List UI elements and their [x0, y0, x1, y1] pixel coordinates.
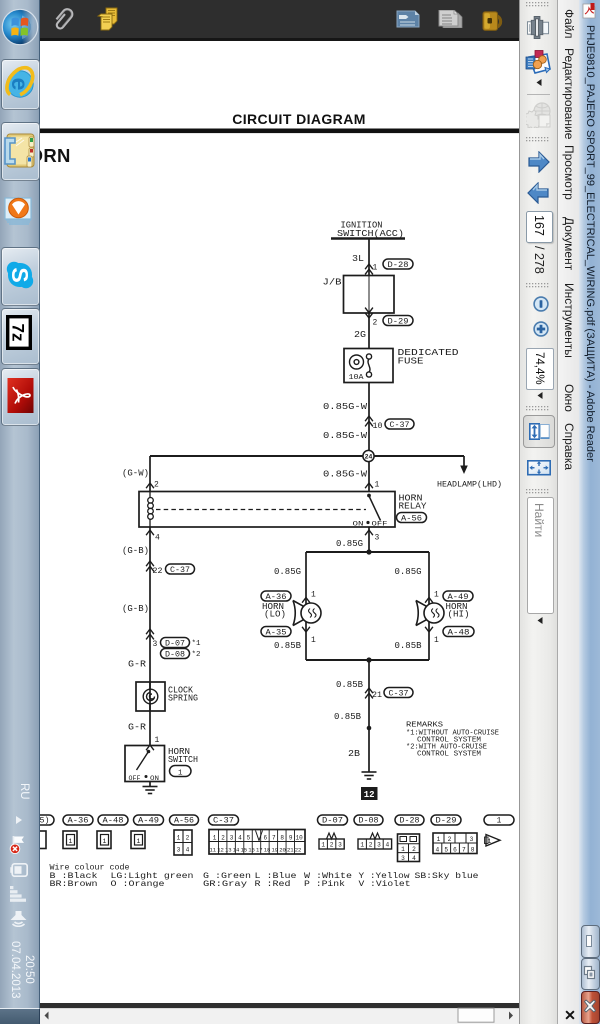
svg-text:0.85B: 0.85B — [274, 640, 301, 651]
svg-text:D-28: D-28 — [400, 818, 420, 826]
svg-text:0.85G-W: 0.85G-W — [323, 430, 367, 441]
svg-text:A-48: A-48 — [448, 628, 470, 637]
svg-text:G-R: G-R — [128, 659, 146, 670]
svg-text:1: 1 — [360, 842, 364, 849]
svg-text:35): 35) — [40, 818, 50, 826]
svg-text:0.85G-W: 0.85G-W — [323, 469, 367, 480]
svg-text:21: 21 — [287, 847, 294, 854]
svg-text:4: 4 — [186, 847, 190, 854]
svg-text:CONTROL SYSTEM: CONTROL SYSTEM — [417, 751, 481, 759]
svg-text:D-07: D-07 — [322, 818, 343, 826]
svg-text:5: 5 — [444, 846, 448, 853]
svg-text:SWITCH: SWITCH — [168, 754, 198, 765]
svg-text:12: 12 — [217, 847, 224, 854]
svg-text:2B: 2B — [348, 748, 360, 759]
svg-text:1: 1 — [103, 838, 107, 845]
svg-text:3: 3 — [401, 855, 405, 862]
svg-text:1: 1 — [373, 264, 378, 273]
svg-text:10A: 10A — [349, 374, 365, 382]
svg-text:(G-B): (G-B) — [122, 603, 149, 614]
svg-text:1: 1 — [69, 838, 73, 845]
svg-text:A-36: A-36 — [68, 818, 89, 826]
svg-text:8: 8 — [280, 834, 284, 841]
svg-text:10: 10 — [295, 834, 303, 841]
svg-text:4: 4 — [155, 534, 160, 543]
svg-text:22: 22 — [295, 847, 302, 854]
svg-text:ON: ON — [150, 775, 159, 782]
svg-text:CIRCUIT DIAGRAM: CIRCUIT DIAGRAM — [232, 111, 366, 127]
svg-text:HORN: HORN — [40, 145, 71, 166]
svg-text:1: 1 — [401, 846, 405, 853]
svg-text:A-56: A-56 — [174, 818, 194, 826]
svg-text:11: 11 — [209, 847, 216, 854]
svg-text:0.85G-W: 0.85G-W — [323, 401, 367, 412]
svg-text:2: 2 — [448, 836, 452, 843]
svg-text:3: 3 — [470, 836, 474, 843]
svg-text:ON: ON — [353, 521, 364, 529]
svg-text:3: 3 — [375, 534, 380, 543]
svg-text:2: 2 — [412, 846, 416, 853]
svg-text:J/B: J/B — [323, 277, 342, 288]
svg-text:2: 2 — [186, 835, 190, 842]
svg-text:7z: 7z — [9, 324, 28, 342]
svg-text:2: 2 — [373, 319, 378, 328]
svg-text:GR:Gray: GR:Gray — [203, 880, 247, 889]
svg-text:9: 9 — [289, 834, 293, 841]
svg-text:1: 1 — [137, 838, 141, 845]
svg-text:0.85G: 0.85G — [336, 538, 363, 549]
svg-text:0.85B: 0.85B — [334, 711, 361, 722]
svg-text:12: 12 — [364, 790, 375, 800]
svg-text:2: 2 — [369, 842, 373, 849]
svg-text:D-08: D-08 — [359, 818, 379, 826]
svg-text:6: 6 — [263, 834, 267, 841]
svg-text:RELAY: RELAY — [399, 501, 427, 512]
svg-text:D-28: D-28 — [388, 261, 409, 270]
svg-text:2G: 2G — [354, 329, 366, 340]
svg-text:(G-W): (G-W) — [122, 468, 149, 479]
svg-text:0.85G: 0.85G — [395, 566, 422, 577]
svg-text:V :Violet: V :Violet — [359, 879, 411, 889]
svg-text:A-56: A-56 — [401, 514, 422, 523]
svg-text:0.85B: 0.85B — [336, 679, 363, 690]
svg-text:3L: 3L — [352, 253, 364, 264]
svg-text:SB:Sky blue: SB:Sky blue — [415, 871, 479, 881]
svg-text:G-R: G-R — [128, 722, 146, 733]
svg-text:1: 1 — [375, 481, 380, 490]
svg-text:4: 4 — [436, 846, 440, 853]
svg-text:C-37: C-37 — [390, 421, 410, 430]
svg-text:A-35: A-35 — [266, 628, 287, 637]
svg-text:24: 24 — [365, 454, 373, 461]
svg-text:1: 1 — [497, 818, 502, 826]
svg-text:15: 15 — [240, 847, 247, 854]
svg-text:(HI): (HI) — [448, 609, 470, 620]
svg-text:1: 1 — [311, 636, 316, 645]
svg-text:*1: *1 — [192, 640, 201, 648]
svg-text:S: S — [7, 267, 33, 282]
svg-text:13: 13 — [225, 847, 232, 854]
svg-text:D-08: D-08 — [165, 650, 185, 659]
svg-text:*2: *2 — [192, 651, 201, 659]
svg-text:D-29: D-29 — [388, 317, 409, 326]
svg-text:3: 3 — [153, 640, 158, 649]
svg-text:2: 2 — [221, 834, 225, 841]
svg-text:OFF: OFF — [372, 521, 388, 529]
svg-text:2: 2 — [330, 842, 334, 849]
svg-text:1: 1 — [178, 769, 183, 777]
svg-text:3: 3 — [230, 834, 234, 841]
svg-text:SPRING: SPRING — [168, 693, 198, 704]
svg-text:(LO): (LO) — [264, 609, 286, 620]
svg-text:SWITCH(ACC): SWITCH(ACC) — [337, 228, 404, 239]
svg-text:4: 4 — [412, 855, 416, 862]
svg-text:C-37: C-37 — [170, 566, 190, 575]
svg-text:1: 1 — [155, 736, 160, 745]
svg-text:3: 3 — [377, 842, 381, 849]
svg-text:R :Red: R :Red — [255, 879, 291, 889]
svg-text:0.85G: 0.85G — [274, 566, 301, 577]
svg-text:19: 19 — [271, 847, 278, 854]
svg-text:7: 7 — [272, 834, 276, 841]
svg-text:0.85B: 0.85B — [395, 640, 422, 651]
svg-text:(G-B): (G-B) — [122, 545, 149, 556]
svg-text:4: 4 — [238, 834, 242, 841]
svg-text:1: 1 — [213, 834, 217, 841]
svg-text:6: 6 — [453, 846, 457, 853]
svg-text:BR:Brown: BR:Brown — [50, 880, 98, 889]
svg-text:A-48: A-48 — [103, 818, 124, 826]
svg-text:C-37: C-37 — [389, 689, 409, 698]
svg-text:21: 21 — [372, 691, 382, 700]
svg-text:20: 20 — [279, 847, 286, 854]
svg-text:FUSE: FUSE — [398, 356, 424, 367]
svg-text:OFF: OFF — [129, 775, 141, 782]
svg-text:REMARKS: REMARKS — [406, 722, 443, 730]
svg-text:HEADLAMP(LHD): HEADLAMP(LHD) — [437, 480, 502, 490]
svg-text:7: 7 — [462, 846, 466, 853]
svg-text:P :Pink: P :Pink — [304, 879, 345, 889]
svg-text:16: 16 — [248, 847, 255, 854]
svg-text:22: 22 — [153, 567, 163, 576]
svg-text:17: 17 — [256, 847, 263, 854]
svg-text:4: 4 — [386, 842, 390, 849]
svg-text:1: 1 — [437, 836, 441, 843]
svg-text:C-37: C-37 — [213, 818, 234, 826]
svg-text:1: 1 — [434, 591, 439, 600]
svg-text:18: 18 — [264, 847, 271, 854]
svg-text:14: 14 — [233, 847, 240, 854]
svg-text:10: 10 — [373, 422, 383, 431]
svg-text:D-07: D-07 — [165, 639, 185, 648]
svg-text:O :Orange: O :Orange — [111, 880, 165, 889]
svg-text:1: 1 — [321, 842, 325, 849]
svg-text:1: 1 — [311, 591, 316, 600]
svg-text:8: 8 — [471, 846, 475, 853]
svg-text:1: 1 — [434, 636, 439, 645]
svg-text:D-29: D-29 — [436, 818, 457, 826]
svg-text:1: 1 — [177, 835, 181, 842]
svg-text:A-49: A-49 — [138, 818, 159, 826]
svg-text:3: 3 — [177, 847, 181, 854]
svg-text:3: 3 — [338, 842, 342, 849]
svg-text:5: 5 — [247, 834, 251, 841]
svg-text:2: 2 — [154, 481, 159, 490]
